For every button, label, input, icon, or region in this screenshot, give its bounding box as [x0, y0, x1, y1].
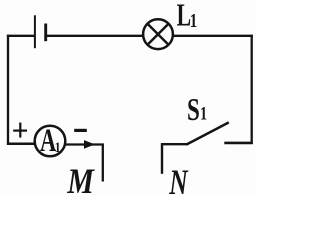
wire ammeter to M corner: [66, 143, 103, 145]
ammeter A1 circle: [35, 126, 66, 157]
wire right edge: [251, 35, 253, 144]
wire N vertical: [161, 143, 163, 174]
switch S1 right contact: [224, 142, 253, 145]
switch S1 lever: [186, 122, 229, 144]
svg-text:N: N: [168, 162, 188, 195]
wire top-middle (battery to lamp): [47, 35, 143, 37]
svg-text:M: M: [66, 162, 95, 195]
plus sign: [13, 130, 27, 132]
svg-text:1: 1: [200, 103, 207, 124]
minus sign: [74, 129, 87, 132]
arrowhead on wire: [84, 140, 95, 149]
battery B1 short plate (-): [44, 24, 47, 42]
wire bottom-left (corner to ammeter): [7, 143, 35, 146]
wire top-right (lamp to right corner): [173, 35, 253, 37]
battery B1 long plate (+): [34, 15, 36, 48]
svg-text:L: L: [177, 0, 191, 33]
svg-text:1: 1: [55, 139, 61, 156]
wire top-left (battery to left corner): [7, 35, 34, 37]
wire M vertical: [102, 143, 104, 181]
svg-text:S: S: [187, 92, 200, 128]
wire left edge: [7, 35, 9, 145]
lamp L1 cross: [148, 24, 169, 45]
svg-text:1: 1: [190, 9, 197, 32]
switch S1 left contact: [161, 143, 187, 145]
lamp L1 circle: [143, 19, 173, 49]
